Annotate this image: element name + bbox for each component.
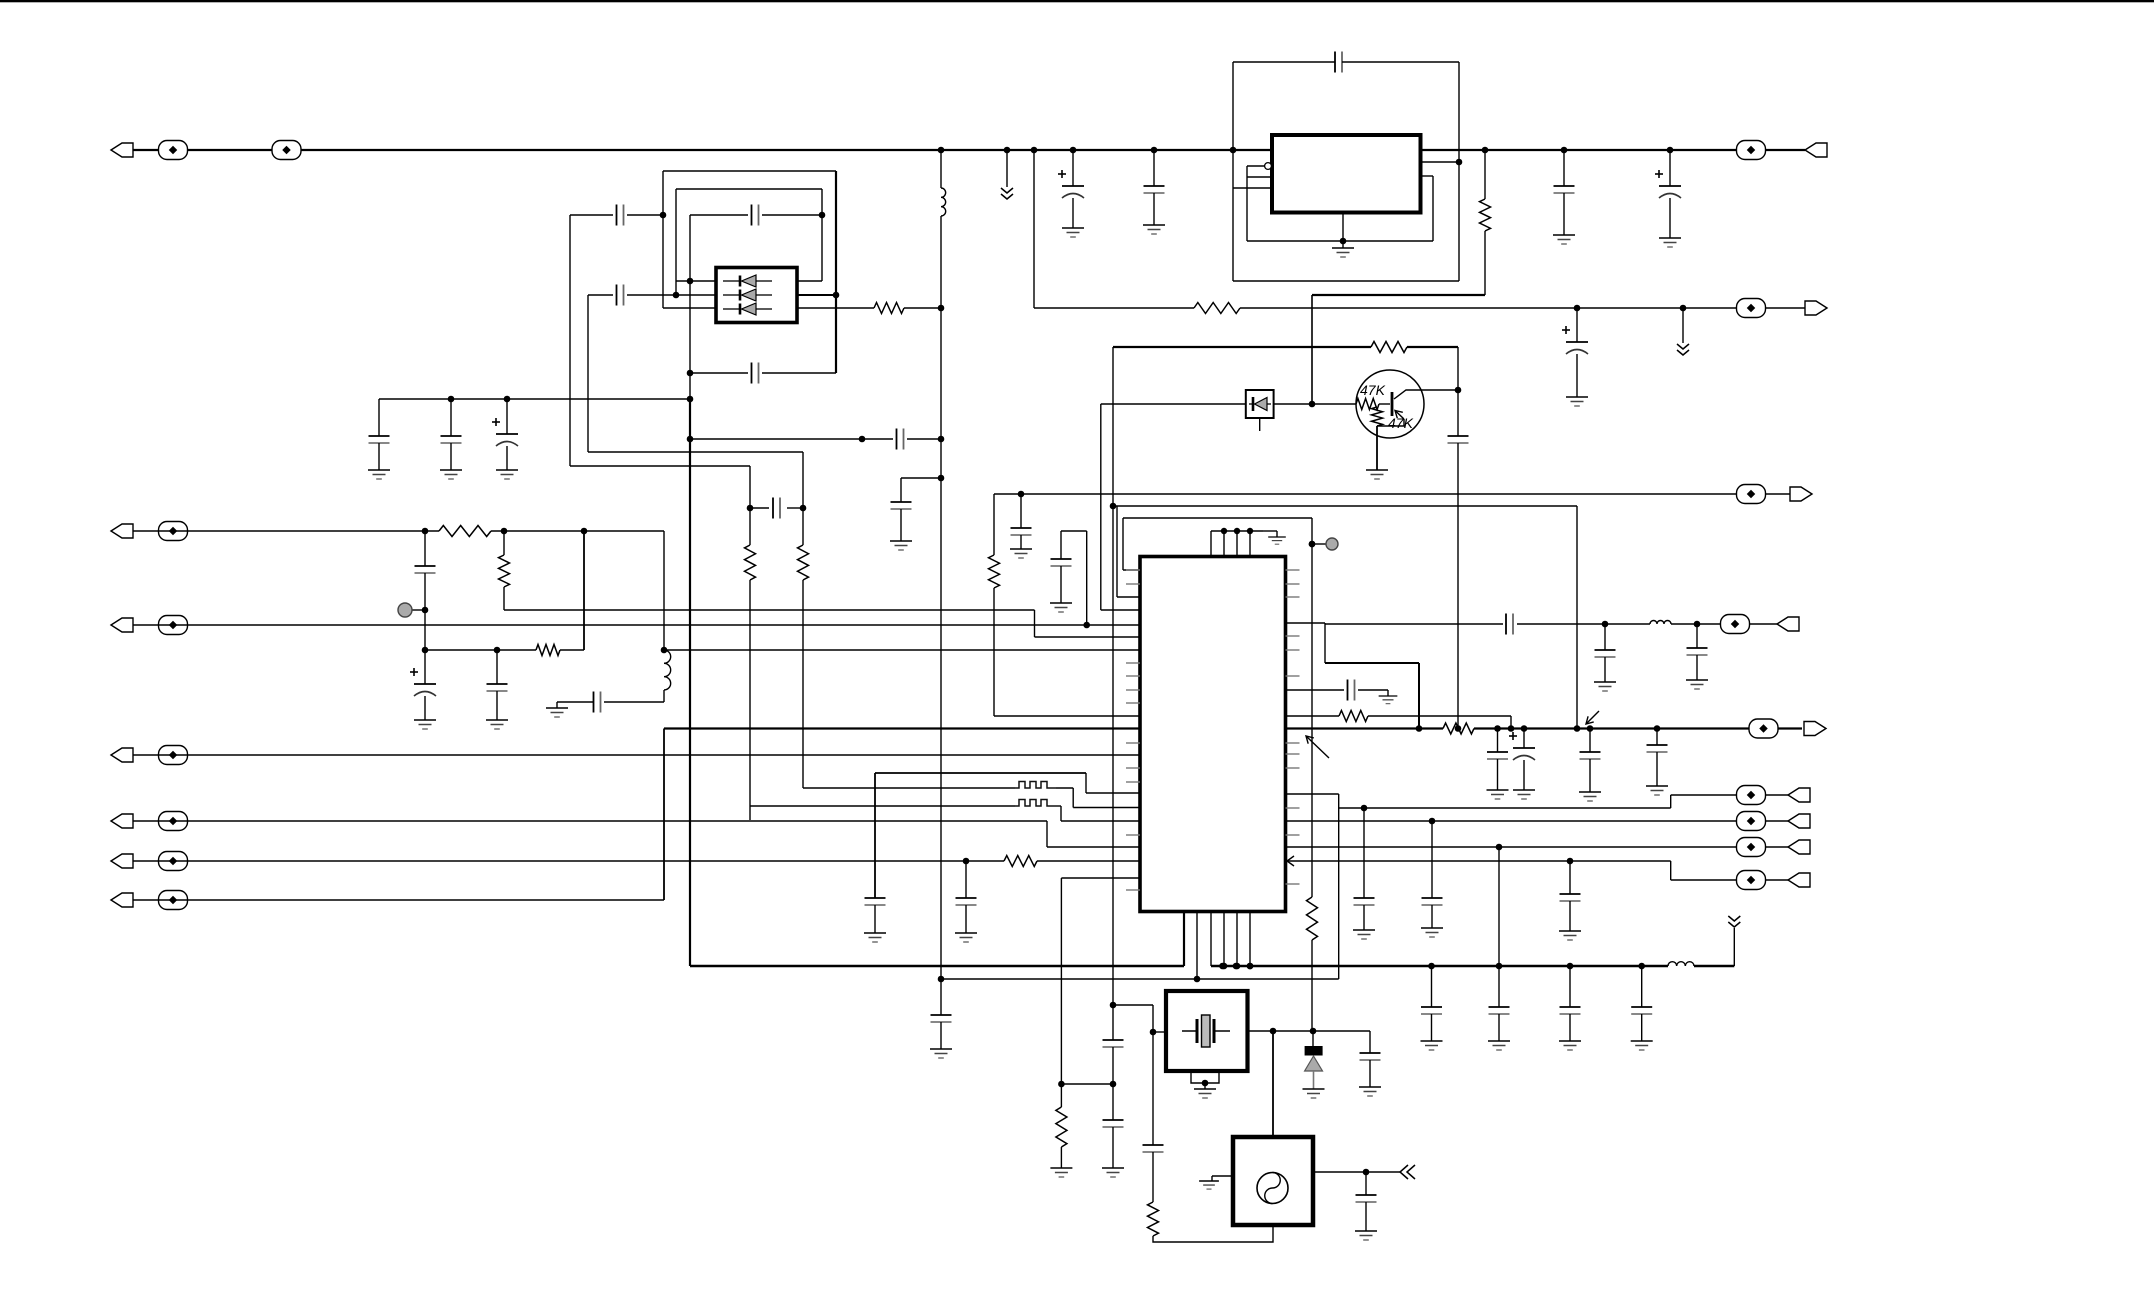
wire bbox=[1113, 1004, 1153, 1006]
junction bbox=[1233, 963, 1240, 970]
IC pin stub bbox=[1126, 702, 1140, 704]
junction bbox=[938, 475, 945, 482]
wire bbox=[1247, 240, 1433, 242]
capacitor C37 bbox=[1487, 752, 1508, 759]
connector P3 bbox=[111, 618, 133, 632]
wire row7 bbox=[1061, 877, 1140, 879]
resistor R8 bbox=[1339, 711, 1368, 722]
IC pin stub bbox=[1286, 834, 1300, 836]
wire bbox=[496, 650, 498, 684]
IC pin stub bbox=[1286, 635, 1300, 637]
resistor R5 bbox=[1194, 303, 1240, 314]
transistor Q1 bbox=[1356, 370, 1424, 438]
junction bbox=[1230, 147, 1237, 154]
wire bbox=[1112, 347, 1114, 1040]
ground bbox=[1353, 930, 1375, 939]
junction bbox=[673, 292, 680, 299]
ground bbox=[1010, 549, 1032, 558]
wire bbox=[583, 531, 585, 650]
capacitor C38 electrolytic bbox=[1509, 732, 1535, 760]
connector P12 bbox=[1804, 722, 1826, 736]
wire bbox=[993, 588, 995, 716]
ground bbox=[486, 720, 508, 729]
off-page arrow bbox=[1677, 344, 1689, 355]
junction bbox=[1587, 725, 1594, 732]
IC pin stub bbox=[1126, 742, 1140, 744]
IC bottom pin bbox=[1210, 912, 1212, 967]
wire bbox=[588, 294, 613, 296]
wire bbox=[749, 580, 751, 820]
junction bbox=[1110, 503, 1117, 510]
junction bbox=[1602, 621, 1609, 628]
junction bbox=[1654, 725, 1661, 732]
junction bbox=[938, 436, 945, 443]
wire bbox=[1101, 609, 1140, 611]
wire pin1 bbox=[676, 280, 716, 282]
capacitor C26 bbox=[956, 898, 977, 905]
wire bbox=[1286, 689, 1345, 691]
inductor L4 bbox=[1650, 621, 1671, 625]
ferrite bead FB5 bbox=[1737, 485, 1766, 504]
wire bbox=[1498, 847, 1500, 966]
wire bbox=[1276, 531, 1278, 537]
wire bbox=[874, 905, 876, 933]
wire bbox=[1671, 623, 1777, 625]
wire nest top2 bbox=[676, 188, 822, 190]
ground bbox=[1631, 1041, 1653, 1050]
crystal box bbox=[1166, 991, 1248, 1071]
wire bbox=[1060, 566, 1062, 603]
wire bbox=[787, 507, 803, 509]
wire pin3 bbox=[663, 307, 716, 309]
IC pin stub bbox=[1126, 834, 1140, 836]
wire bbox=[1510, 716, 1512, 729]
wire bbox=[1497, 729, 1499, 753]
ground bbox=[1303, 1089, 1325, 1098]
wire rowD bbox=[1287, 860, 1671, 862]
wire bbox=[506, 446, 508, 470]
emitter bbox=[1377, 419, 1404, 426]
ground bbox=[1594, 682, 1616, 691]
junction bbox=[747, 505, 754, 512]
wire row3 bbox=[875, 787, 1015, 789]
wire bbox=[1033, 150, 1035, 308]
junction bbox=[1110, 1081, 1117, 1088]
wire bbox=[1563, 193, 1565, 235]
wire collector bbox=[1394, 390, 1458, 399]
IC pin stub bbox=[1286, 767, 1300, 769]
wire gnd bus bbox=[690, 965, 1184, 967]
wire bbox=[1497, 759, 1499, 790]
wire row2 bbox=[875, 772, 1086, 774]
pulse waveform bbox=[1015, 800, 1056, 807]
IC pin stub bbox=[1126, 675, 1140, 677]
junction bbox=[1567, 858, 1574, 865]
wire bbox=[424, 573, 426, 650]
junction bbox=[1428, 963, 1435, 970]
wire bbox=[569, 215, 571, 466]
capacitor C30 bbox=[931, 1015, 952, 1022]
IC bottom pin bbox=[1196, 912, 1198, 980]
IC pin stub bbox=[1126, 767, 1140, 769]
wire bbox=[1274, 403, 1312, 405]
junction bbox=[687, 396, 694, 403]
wire bbox=[1034, 610, 1036, 637]
junction bbox=[687, 278, 694, 285]
junction bbox=[1309, 401, 1316, 408]
ground bbox=[1050, 603, 1072, 612]
stub bbox=[1259, 418, 1261, 431]
IC pin stub bbox=[1126, 662, 1140, 664]
junction bbox=[1574, 305, 1581, 312]
wire pin623 bbox=[1286, 622, 1326, 624]
wire bbox=[802, 452, 804, 508]
wire bbox=[627, 214, 663, 216]
ferrite bead FB7 bbox=[159, 616, 188, 635]
junction bbox=[1482, 147, 1489, 154]
wire bbox=[1211, 1176, 1213, 1181]
junction bbox=[1202, 1080, 1209, 1087]
wire bbox=[1272, 1031, 1274, 1137]
connector P4 bbox=[111, 748, 133, 762]
capacitor bbox=[1421, 1007, 1442, 1014]
svg-text:47K: 47K bbox=[1360, 382, 1386, 398]
wire bbox=[874, 773, 876, 898]
junction bbox=[422, 647, 429, 654]
junction bbox=[1309, 541, 1316, 548]
ground bbox=[440, 470, 462, 479]
wire bbox=[1152, 1152, 1154, 1202]
wire bbox=[1056, 787, 1073, 789]
wire y624 bbox=[1325, 623, 1503, 625]
wire bbox=[994, 493, 1790, 495]
wire bbox=[993, 494, 995, 555]
ground bbox=[1487, 790, 1509, 799]
IC pin stub bbox=[1286, 807, 1300, 809]
wire bbox=[1604, 657, 1606, 682]
ferrite bead FB11 bbox=[159, 891, 188, 910]
resistor R4 bbox=[874, 303, 904, 314]
ground bbox=[1062, 228, 1084, 237]
wire bbox=[1060, 806, 1062, 821]
capacitor C19 bbox=[891, 502, 912, 509]
wire bbox=[1312, 294, 1485, 296]
resistor R9 bbox=[1443, 723, 1474, 734]
diode array D1 elements bbox=[723, 275, 772, 315]
IC top pin bbox=[1223, 531, 1225, 557]
antenna bbox=[1728, 916, 1740, 927]
wire bbox=[965, 861, 967, 898]
junction bbox=[422, 607, 429, 614]
IC pin stub bbox=[1126, 781, 1140, 783]
connector P14 bbox=[1788, 814, 1810, 828]
wire bbox=[835, 171, 837, 373]
wire bbox=[994, 715, 1140, 717]
wire bbox=[821, 189, 823, 281]
capacitor C25 bbox=[594, 692, 601, 713]
wire rowC bbox=[1286, 846, 1789, 848]
wire bbox=[424, 650, 426, 684]
wire bbox=[1263, 530, 1277, 532]
wire bbox=[1020, 494, 1022, 528]
junction bbox=[1031, 147, 1038, 154]
wire bbox=[662, 171, 664, 308]
capacitor C36 bbox=[1348, 680, 1355, 701]
wire bbox=[1061, 820, 1140, 822]
junction bbox=[1309, 541, 1316, 548]
base bar bbox=[1391, 392, 1394, 416]
wire bbox=[424, 531, 426, 566]
wire bbox=[1060, 1147, 1062, 1168]
wire bbox=[940, 150, 942, 188]
border top bar bbox=[0, 0, 2154, 2]
wire bbox=[1034, 307, 1194, 309]
pulse waveform bbox=[1015, 782, 1056, 789]
wire y979 bbox=[941, 978, 1339, 980]
junction bbox=[1494, 725, 1501, 732]
junction bbox=[448, 396, 455, 403]
wire bbox=[1358, 689, 1388, 691]
wire row4 bbox=[750, 805, 1015, 807]
junction bbox=[494, 647, 501, 654]
wire bbox=[1020, 535, 1022, 549]
wire bbox=[450, 399, 452, 436]
wire pin3r bbox=[797, 307, 874, 309]
wire bbox=[1363, 905, 1365, 930]
ground bbox=[1579, 792, 1601, 801]
capacitor C18 bbox=[897, 429, 904, 450]
wire thick y728 right bbox=[1286, 727, 1444, 729]
wire x690 bbox=[689, 215, 691, 400]
wire bbox=[904, 307, 941, 309]
ferrite bead FB4 bbox=[1737, 299, 1766, 318]
junction bbox=[1340, 238, 1347, 245]
IC top pin bbox=[1236, 531, 1238, 557]
wire x690 thick bbox=[689, 400, 691, 966]
wire bbox=[133, 530, 439, 532]
wire pin bbox=[1247, 176, 1272, 178]
crystal case gnd bbox=[1191, 1071, 1219, 1083]
ground bbox=[1199, 1181, 1219, 1189]
wire bbox=[1311, 518, 1313, 897]
wire bbox=[570, 214, 613, 216]
ferrite bead FB13 bbox=[1749, 719, 1778, 738]
wire bbox=[378, 399, 380, 436]
wire bbox=[133, 624, 1140, 626]
ferrite bead FB3 bbox=[1737, 141, 1766, 160]
connector P9 bbox=[1805, 301, 1827, 315]
wire bbox=[1047, 846, 1140, 848]
ground bbox=[1566, 397, 1588, 406]
wire bbox=[663, 531, 665, 650]
wire y466 bbox=[570, 465, 750, 467]
junction bbox=[1561, 147, 1568, 154]
junction bbox=[1270, 1028, 1277, 1035]
wire bbox=[560, 649, 584, 651]
ferrite bead FB9 bbox=[159, 812, 188, 831]
wire bbox=[1498, 1014, 1500, 1041]
wire bbox=[1457, 347, 1459, 436]
test point TP2 bbox=[1312, 538, 1338, 550]
wire bbox=[133, 899, 664, 901]
wire bbox=[1072, 198, 1074, 228]
wire bbox=[1122, 518, 1124, 570]
wire bbox=[1060, 1084, 1062, 1107]
wire bbox=[1153, 1225, 1273, 1242]
ground bbox=[1268, 537, 1286, 544]
wire bbox=[749, 508, 751, 545]
ground bbox=[1659, 238, 1681, 247]
ground bbox=[1559, 1041, 1581, 1050]
connector P8 bbox=[1805, 143, 1827, 157]
wire y452 bbox=[588, 451, 803, 453]
wire bbox=[750, 507, 769, 509]
capacitor C42 bbox=[1422, 898, 1443, 905]
resistor R1 bbox=[439, 526, 491, 537]
ground bbox=[1379, 696, 1398, 704]
wire loop top-left bbox=[1233, 61, 1335, 63]
wire bbox=[1248, 1030, 1314, 1032]
wire pin bbox=[1247, 165, 1265, 167]
junction bbox=[1247, 528, 1253, 534]
wire bbox=[557, 701, 594, 703]
capacitor C4 bbox=[1335, 52, 1342, 73]
wire bbox=[1641, 966, 1643, 1007]
wire pin bbox=[1233, 187, 1272, 189]
IC pin stub bbox=[1126, 889, 1140, 891]
crystal Y1 bbox=[1182, 1015, 1230, 1047]
wire bbox=[907, 438, 941, 440]
wire bbox=[506, 399, 508, 434]
wire pin2r bbox=[797, 294, 836, 296]
connector P6 bbox=[111, 854, 133, 868]
wire bbox=[1369, 1031, 1371, 1053]
inductor L3 bbox=[664, 650, 671, 690]
junction bbox=[581, 528, 588, 535]
diode D2 bbox=[1249, 397, 1271, 411]
junction bbox=[1496, 844, 1503, 851]
ground bbox=[368, 470, 390, 479]
wire bbox=[1418, 663, 1420, 729]
wire bbox=[1086, 531, 1088, 625]
wire bbox=[627, 294, 676, 296]
wire bbox=[1212, 1175, 1233, 1177]
junction bbox=[963, 858, 970, 865]
capacitor C23 bbox=[487, 684, 508, 691]
inductor L2 bbox=[941, 188, 946, 216]
junction bbox=[1083, 622, 1090, 629]
wire bbox=[1669, 198, 1671, 238]
junction bbox=[1574, 725, 1581, 732]
wire bbox=[424, 696, 426, 720]
resistor R16 bbox=[1056, 1107, 1067, 1147]
IC pin stub bbox=[1286, 583, 1300, 585]
wire jog bbox=[1061, 530, 1087, 532]
capacitor C46 bbox=[1356, 1195, 1377, 1202]
wire bbox=[1211, 530, 1263, 532]
ground bbox=[496, 470, 518, 479]
wire bbox=[802, 508, 804, 545]
junction bbox=[938, 147, 945, 154]
junction bbox=[501, 528, 508, 535]
wire bbox=[503, 531, 505, 555]
resistor R2 bbox=[745, 545, 756, 580]
IC bottom pin bbox=[1249, 912, 1251, 967]
capacitor C16 bbox=[441, 436, 462, 443]
wire bbox=[663, 729, 665, 901]
wire bbox=[1060, 531, 1062, 559]
connector P2 bbox=[111, 524, 133, 538]
ferrite bead FB12 bbox=[1721, 615, 1750, 634]
ground bbox=[1686, 680, 1708, 689]
wire bbox=[1085, 773, 1087, 793]
capacitor C2 electrolytic bbox=[1058, 170, 1084, 198]
resistor R12 bbox=[1307, 897, 1318, 940]
ferrite bead FB6 bbox=[159, 522, 188, 541]
capacitor C34 bbox=[1595, 650, 1616, 657]
wire bbox=[1113, 346, 1371, 348]
wire bbox=[1313, 1030, 1370, 1032]
wire bbox=[1100, 404, 1102, 610]
junction bbox=[819, 212, 826, 219]
wire bbox=[1246, 166, 1248, 241]
ground bbox=[1050, 1168, 1072, 1177]
regulator U2 bbox=[1272, 135, 1421, 213]
wire bbox=[1517, 623, 1650, 625]
ground bbox=[864, 933, 886, 942]
wire bbox=[450, 443, 452, 470]
wire bbox=[1589, 759, 1591, 792]
wire bbox=[1576, 308, 1578, 342]
junction bbox=[422, 528, 429, 535]
junction bbox=[504, 396, 511, 403]
IC pin stub bbox=[1126, 689, 1140, 691]
ground bbox=[890, 541, 912, 550]
junction bbox=[1667, 147, 1674, 154]
junction bbox=[1429, 818, 1436, 825]
wire bbox=[1286, 715, 1340, 717]
wire bbox=[900, 478, 902, 502]
wire bbox=[1656, 729, 1658, 746]
capacitor C12 bbox=[617, 285, 624, 306]
junction bbox=[1004, 147, 1011, 154]
junction bbox=[938, 305, 945, 312]
wire bbox=[675, 189, 677, 295]
wire bbox=[496, 691, 498, 720]
capacitor bbox=[1631, 1007, 1652, 1014]
wire bbox=[1733, 928, 1735, 966]
off-page arrow bbox=[1001, 188, 1013, 199]
wire bbox=[1368, 715, 1511, 717]
wire bbox=[1311, 940, 1313, 1031]
wire bbox=[1669, 150, 1671, 186]
wire rowA bbox=[1286, 793, 1339, 795]
ground bbox=[1559, 931, 1581, 940]
ground bbox=[955, 933, 977, 942]
ferrite bead FB17 bbox=[1737, 871, 1766, 890]
wire top supply bus bbox=[133, 149, 1805, 151]
resistor R18 bbox=[989, 555, 1000, 588]
adjust arrow bbox=[1586, 711, 1599, 724]
ferrite bead FB10 bbox=[159, 852, 188, 871]
IC pin stub bbox=[1286, 883, 1300, 885]
capacitor C8 electrolytic bbox=[1562, 326, 1588, 354]
off-page arrow bbox=[1400, 1165, 1415, 1179]
capacitor C22 electrolytic bbox=[410, 668, 436, 696]
wire bbox=[1204, 1083, 1206, 1089]
capacitor C11 bbox=[752, 205, 759, 226]
wire pin bbox=[1421, 175, 1434, 177]
